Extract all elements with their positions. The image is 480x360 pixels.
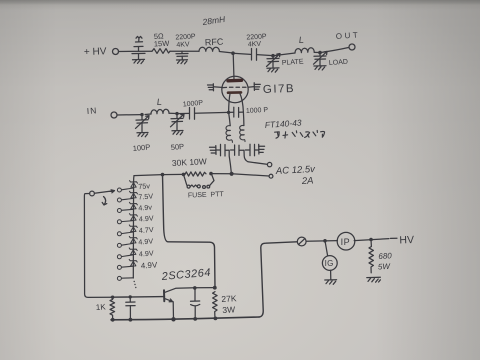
variable capacitor 100P (136, 115, 150, 133)
svg-text:FT140-43: FT140-43 (264, 117, 302, 130)
meter IP (337, 232, 355, 250)
capacitor collector bypass (191, 288, 200, 319)
node (193, 317, 197, 321)
node (129, 318, 133, 322)
svg-text:30K 10W: 30K 10W (172, 156, 207, 168)
ground (133, 59, 145, 63)
wire (219, 52, 233, 54)
zener D7 (129, 248, 137, 255)
capacitor C3 2200P 4KV coupling (246, 33, 267, 60)
cathode bar (228, 91, 241, 94)
switch contact taps (122, 188, 134, 278)
collector wire (195, 287, 215, 289)
svg-text:OUT: OUT (336, 30, 361, 41)
node (214, 317, 218, 321)
node (175, 112, 178, 115)
node (318, 51, 322, 55)
switch PTT (203, 174, 214, 189)
bifilar choke T1 on FT140-43 (226, 125, 245, 142)
riser wire to -HV line (259, 242, 297, 317)
capacitor C2 2200P 4KV (175, 33, 196, 59)
svg-text:3W: 3W (222, 304, 235, 315)
wire (169, 112, 177, 114)
svg-text:LOAD: LOAD (329, 59, 349, 67)
ferrite bead feedthrough (297, 237, 306, 246)
svg-text:4.9V: 4.9V (139, 248, 155, 258)
transistor Q1 2SC3264 (164, 288, 195, 320)
IN terminal (111, 112, 117, 118)
node (209, 172, 213, 176)
capacitor 1000P input series (183, 100, 204, 119)
svg-text:RFC: RFC (205, 37, 224, 48)
svg-text:PLATE: PLATE (282, 58, 304, 67)
svg-text:2A: 2A (301, 175, 314, 187)
ground (314, 66, 326, 70)
triode V1 envelope (222, 76, 248, 102)
OUT terminal (349, 44, 355, 50)
node (369, 238, 373, 242)
resistor R 30K 10W (172, 156, 207, 176)
GI7B label (263, 83, 296, 96)
ground (367, 277, 381, 282)
node (161, 173, 165, 177)
rail wire (211, 173, 231, 175)
node (182, 173, 186, 177)
svg-text:50P: 50P (170, 142, 184, 152)
ground grid right (254, 83, 260, 91)
7t bifilar note (katakana strokes) (275, 130, 325, 138)
svg-text:27K: 27K (221, 293, 237, 304)
node (111, 296, 114, 299)
zener D4 (129, 214, 137, 221)
node (193, 286, 197, 290)
svg-text:75v: 75v (138, 181, 151, 191)
grid dashed (214, 87, 255, 88)
wire (257, 55, 273, 56)
dotted continuation (134, 281, 137, 288)
ground left (210, 146, 217, 155)
inductor L input (145, 97, 169, 115)
wire (354, 239, 389, 241)
capacitor 1000P between filament legs (229, 107, 269, 117)
svg-text:4.9V: 4.9V (139, 213, 155, 223)
wire (117, 114, 142, 116)
capacitor base bypass (126, 297, 135, 320)
wire staircase (163, 175, 216, 288)
svg-text:IP: IP (341, 237, 351, 247)
svg-text:2200P: 2200P (175, 33, 196, 41)
svg-text:IG: IG (325, 259, 334, 268)
variable capacitor 50P (171, 114, 185, 131)
ladder vertical wire (132, 176, 135, 278)
svg-text:GI7B: GI7B (263, 83, 296, 96)
ground right (259, 144, 265, 154)
node (227, 111, 230, 114)
node plate junction (231, 51, 235, 55)
zener D3 (129, 202, 137, 209)
wire plate lead (232, 53, 235, 79)
AC 12.5v 2A label (275, 164, 317, 187)
svg-text:5W: 5W (378, 262, 392, 272)
svg-text:1000P: 1000P (183, 100, 204, 109)
capacitor mid bypass (231, 145, 244, 155)
svg-text:L: L (298, 35, 304, 45)
zener labels (138, 181, 158, 270)
meter IG (322, 241, 337, 280)
wire (233, 53, 251, 54)
zener D1 (130, 181, 138, 188)
svg-text:4KV: 4KV (248, 41, 262, 49)
svg-text:7.5V: 7.5V (138, 191, 154, 201)
AC terminal bottom (269, 174, 273, 178)
node (111, 318, 115, 322)
ground (267, 68, 279, 72)
+HV terminal (113, 49, 119, 55)
fuse F1 (184, 174, 201, 188)
zener D5 (129, 225, 137, 232)
ground (177, 60, 188, 64)
svg-text:1000 P: 1000 P (246, 107, 269, 115)
node (129, 295, 132, 298)
wire (306, 240, 337, 243)
rail wire (134, 174, 184, 175)
resistor R1 5ohm 15W (152, 31, 170, 53)
ground (325, 280, 337, 285)
selector wiper (90, 190, 115, 205)
bottom rail (111, 317, 259, 320)
svg-text:28mH: 28mH (201, 14, 227, 27)
wire (119, 50, 153, 52)
svg-text:IN: IN (86, 105, 97, 116)
wiper common wire (84, 194, 111, 298)
node (171, 317, 175, 321)
svg-text:4.9v: 4.9v (138, 203, 153, 213)
svg-text:L: L (156, 97, 162, 107)
svg-text:4.7V: 4.7V (139, 225, 155, 235)
svg-text:680: 680 (378, 251, 392, 261)
inductor L tank (295, 35, 314, 53)
svg-text:FUSE PTT: FUSE PTT (188, 191, 225, 199)
filament legs down to bifilar (229, 112, 231, 125)
svg-text:2SC3264: 2SC3264 (160, 267, 211, 283)
resistor R 680 5W (369, 240, 392, 273)
filament legs (229, 94, 230, 113)
resistor R 1K (96, 297, 115, 320)
FUSE PTT label (188, 191, 225, 199)
wire (195, 111, 229, 114)
svg-text:1K: 1K (96, 302, 107, 312)
ground (137, 133, 148, 137)
ground grid left (208, 84, 214, 91)
wire (273, 53, 295, 56)
wire (314, 51, 320, 53)
svg-text:+ HV: + HV (84, 46, 107, 58)
node (323, 239, 327, 243)
node filament/rail junction (230, 172, 234, 176)
svg-text:HV: HV (399, 234, 414, 247)
capacitor right bypass (245, 144, 258, 156)
variable capacitor PLATE (267, 54, 281, 68)
ground (172, 131, 183, 135)
resistor R 27K 3W (213, 292, 237, 317)
IN label (86, 105, 97, 116)
wire (170, 50, 199, 52)
svg-text:4KV: 4KV (176, 41, 190, 49)
node (213, 286, 217, 290)
AC terminal top (267, 162, 271, 166)
svg-text:4.9V: 4.9V (138, 236, 154, 246)
svg-text:15W: 15W (154, 39, 171, 49)
zener D8 (129, 259, 137, 266)
svg-text:4.9V: 4.9V (141, 260, 159, 270)
variable capacitor LOAD (314, 51, 328, 65)
+HV label (84, 46, 107, 58)
zener D6 (129, 236, 137, 243)
RFC choke 28mH (199, 14, 227, 51)
rail wire to AC lower terminal (232, 174, 269, 176)
feedthrough capacitor C1 (132, 36, 145, 59)
-HV label (391, 234, 415, 247)
zener D2 (130, 191, 138, 198)
node (140, 113, 143, 116)
2SC3264 label (160, 267, 211, 283)
svg-text:100P: 100P (132, 142, 150, 152)
FT140-43 label (264, 117, 302, 130)
capacitor left bypass (216, 144, 229, 156)
switch contacts (117, 188, 121, 280)
node (271, 54, 275, 58)
wire (177, 112, 189, 114)
base wire (111, 296, 164, 299)
filament legs below caps (229, 150, 231, 173)
plate bar (228, 79, 242, 83)
wire (320, 48, 349, 53)
OUT label (336, 30, 361, 41)
